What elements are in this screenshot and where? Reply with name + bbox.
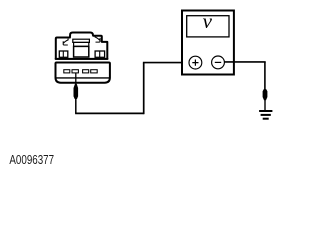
probe tip body (right, pointing down) xyxy=(263,89,268,100)
voltmeter V1 case xyxy=(182,11,234,75)
connector J1 right window xyxy=(95,51,105,57)
wire vertical riser xyxy=(143,63,145,115)
wire from probe down xyxy=(75,98,77,113)
connector J1 center cavity xyxy=(74,46,89,57)
ground symbol bar 2 xyxy=(261,114,271,116)
connector J1 terminal slot 1 xyxy=(64,70,70,73)
wire from negative terminal to ground drop xyxy=(225,61,266,63)
ground symbol bar 1 xyxy=(259,110,272,112)
connector J1 terminal slot 3 xyxy=(83,70,89,73)
svg-text:A0096377: A0096377 xyxy=(9,154,54,168)
connector J1 terminal slot 2 xyxy=(72,70,78,73)
connector J1 terminal slot 4 xyxy=(91,70,98,73)
wire bottom horizontal run xyxy=(75,112,144,114)
connector J1 upper body bottom edge xyxy=(55,58,109,60)
connector J1 center flange xyxy=(73,39,90,42)
voltmeter V1 negative terminal minus mark xyxy=(215,61,221,63)
connector J1 upper body outline xyxy=(56,33,108,59)
voltmeter V1 negative terminal xyxy=(212,56,225,69)
voltmeter V1 display window xyxy=(187,16,229,37)
wire ground drop vertical xyxy=(264,62,266,91)
svg-text:ν: ν xyxy=(203,9,213,33)
connector J1 center cap band xyxy=(74,42,89,46)
wire to voltmeter positive terminal xyxy=(143,62,189,64)
connector J1 latch hook right xyxy=(95,36,100,42)
probe lead into slot 2 xyxy=(75,73,77,85)
wire from probe to ground xyxy=(264,99,266,110)
voltmeter V1 positive terminal plus mark xyxy=(192,60,198,66)
voltmeter V1 positive terminal xyxy=(189,56,202,69)
probe tip body (left, pointing up) xyxy=(74,84,79,99)
connector J1 left window xyxy=(59,51,68,57)
ground symbol bar 3 xyxy=(263,118,269,120)
connector J1 right window divider xyxy=(99,51,101,57)
connector J1 left window divider xyxy=(62,51,64,57)
connector J1 lower shell xyxy=(56,63,110,83)
connector J1 lower shell rim line xyxy=(56,77,110,79)
connector J1 latch hook left xyxy=(63,39,68,45)
